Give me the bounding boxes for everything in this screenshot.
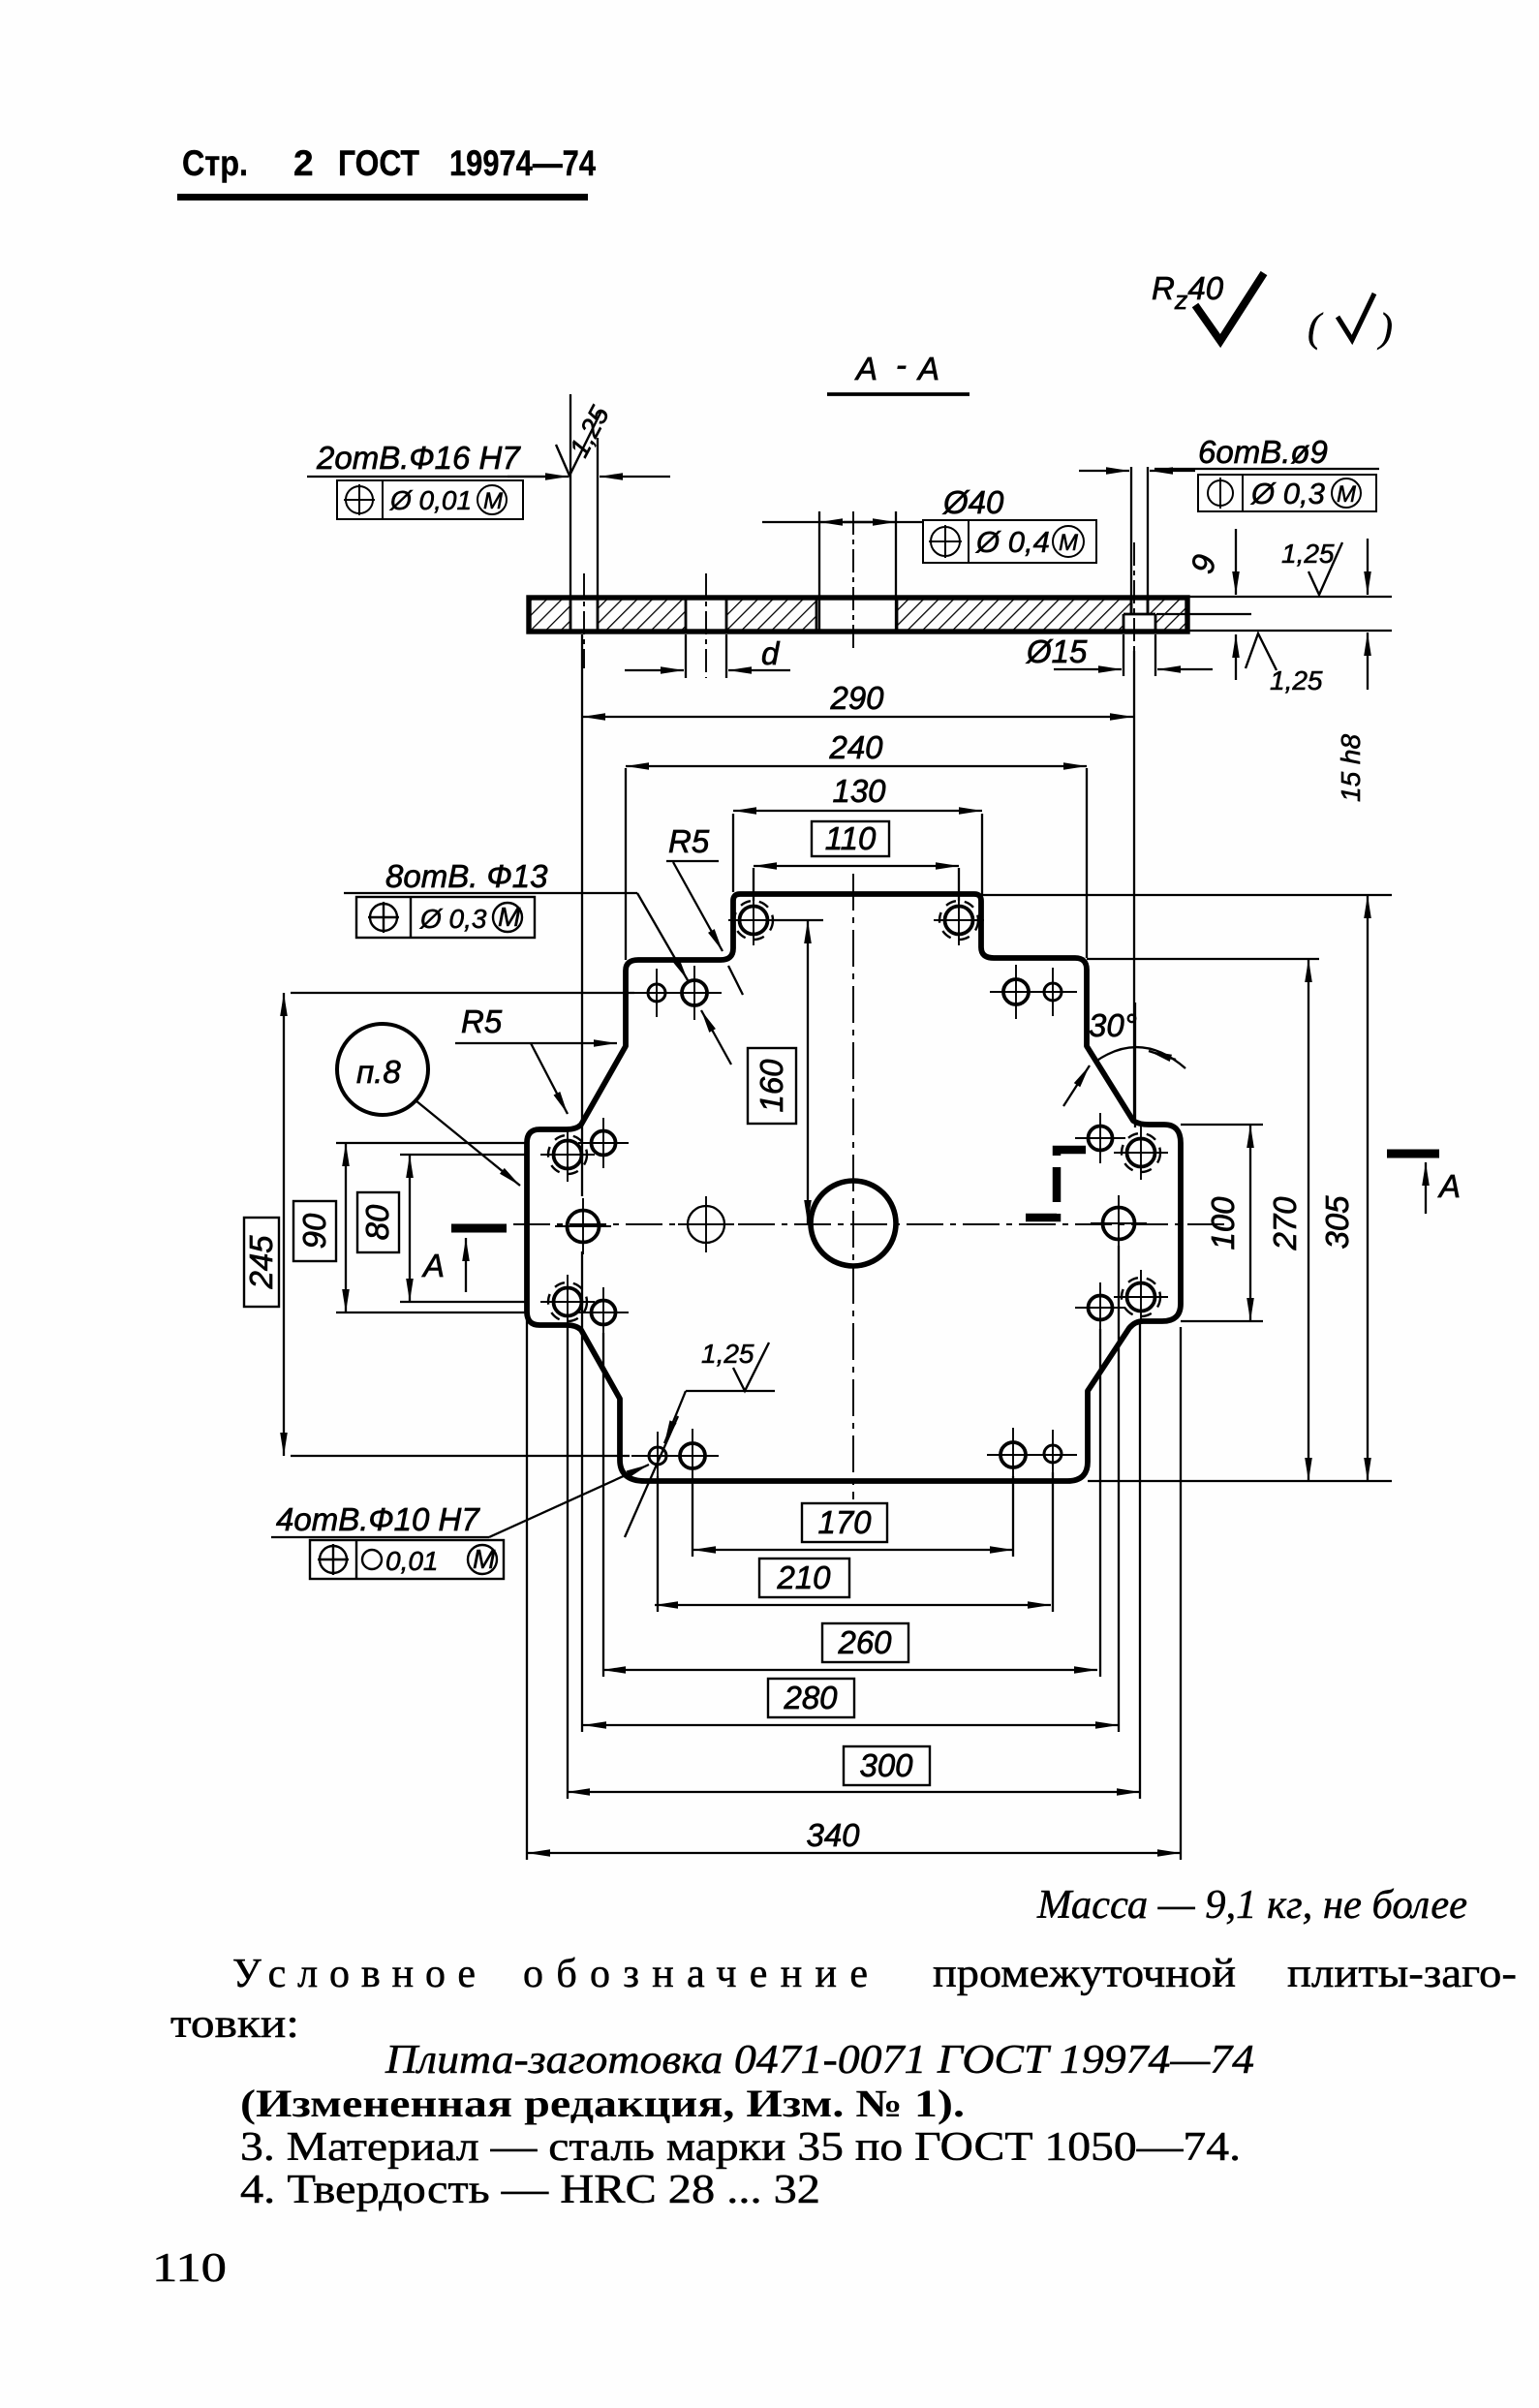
svg-text:90: 90	[296, 1213, 332, 1249]
svg-text:Ø 0,01: Ø 0,01	[389, 485, 472, 515]
svg-text:промежуточной: промежуточной	[933, 1952, 1236, 1996]
svg-text:240: 240	[828, 729, 883, 765]
svg-text:6отВ.ø9: 6отВ.ø9	[1198, 434, 1328, 470]
svg-text:290: 290	[829, 680, 884, 716]
svg-text:340: 340	[806, 1817, 860, 1853]
svg-text:0,01: 0,01	[385, 1546, 439, 1576]
svg-text:100: 100	[1205, 1196, 1241, 1250]
svg-text:15 h8: 15 h8	[1336, 734, 1366, 802]
svg-text:М: М	[498, 902, 521, 932]
svg-text:плиты-заго-: плиты-заго-	[1287, 1952, 1517, 1996]
svg-text:4отВ.Ф10 Н7: 4отВ.Ф10 Н7	[276, 1501, 480, 1537]
svg-text:d: d	[761, 635, 781, 671]
svg-text:300: 300	[859, 1747, 913, 1783]
svg-text:А: А	[1437, 1168, 1461, 1204]
svg-text:товки:: товки:	[170, 2002, 299, 2047]
svg-text:А: А	[421, 1248, 445, 1283]
svg-text:4. Твердость — HRC 28 ... 32: 4. Твердость — HRC 28 ... 32	[240, 2168, 820, 2212]
svg-text:М: М	[1059, 530, 1078, 556]
svg-text:305: 305	[1319, 1195, 1355, 1250]
svg-text:М: М	[473, 1544, 496, 1574]
svg-text:2: 2	[293, 143, 314, 183]
svg-text:3. Материал — сталь марки 35 п: 3. Материал — сталь марки 35 по ГОСТ 105…	[240, 2125, 1241, 2170]
svg-text:-: -	[896, 347, 907, 383]
svg-text:обозначение: обозначение	[523, 1952, 868, 1996]
svg-text:9: 9	[1184, 551, 1222, 577]
svg-text:(Измененная редакция, Изм. № 1: (Измененная редакция, Изм. № 1).	[240, 2082, 965, 2125]
svg-text:А: А	[916, 351, 939, 386]
svg-text:R5: R5	[461, 1003, 503, 1039]
svg-text:160: 160	[754, 1059, 789, 1113]
svg-text:Плита-заготовка 0471-0071 ГОСТ: Плита-заготовка 0471-0071 ГОСТ 19974—74	[385, 2038, 1254, 2083]
svg-text:Масса — 9,1 кг, не более: Масса — 9,1 кг, не более	[1036, 1883, 1467, 1928]
svg-text:280: 280	[783, 1680, 838, 1715]
svg-text:80: 80	[359, 1204, 395, 1240]
svg-text:Ø15: Ø15	[1026, 633, 1088, 669]
svg-text:30°: 30°	[1089, 1007, 1137, 1043]
svg-text:Ø 0,4: Ø 0,4	[975, 525, 1050, 559]
svg-text:R5: R5	[668, 823, 710, 859]
svg-text:Ø 0,3: Ø 0,3	[419, 904, 487, 934]
svg-text:1,25: 1,25	[1281, 539, 1335, 569]
svg-text:Условное: Условное	[232, 1952, 476, 1996]
svg-text:110: 110	[825, 820, 877, 856]
svg-text:А: А	[854, 351, 877, 386]
svg-text:ГОСТ: ГОСТ	[338, 143, 419, 183]
svg-text:245: 245	[243, 1235, 279, 1290]
svg-text:): )	[1377, 306, 1393, 351]
svg-text:1,25: 1,25	[1270, 665, 1323, 695]
svg-text:19974—74: 19974—74	[449, 143, 596, 183]
svg-text:Rz40: Rz40	[1152, 270, 1224, 315]
svg-text:п.8: п.8	[356, 1054, 401, 1090]
svg-text:110: 110	[152, 2246, 227, 2291]
svg-text:2отВ.Ф16 Н7: 2отВ.Ф16 Н7	[316, 440, 521, 476]
svg-text:1,25: 1,25	[701, 1339, 754, 1369]
svg-text:270: 270	[1267, 1196, 1303, 1251]
svg-text:(: (	[1308, 306, 1324, 351]
svg-text:Ø 0,3: Ø 0,3	[1250, 477, 1325, 510]
svg-text:М: М	[483, 488, 503, 514]
svg-text:170: 170	[817, 1504, 872, 1540]
svg-text:130: 130	[832, 773, 886, 809]
svg-text:Ø40: Ø40	[942, 484, 1004, 520]
svg-text:Стр.: Стр.	[182, 143, 248, 183]
svg-text:8отВ. Ф13: 8отВ. Ф13	[385, 858, 548, 894]
svg-text:260: 260	[837, 1624, 892, 1660]
svg-text:210: 210	[776, 1559, 831, 1595]
svg-text:М: М	[1337, 481, 1356, 508]
